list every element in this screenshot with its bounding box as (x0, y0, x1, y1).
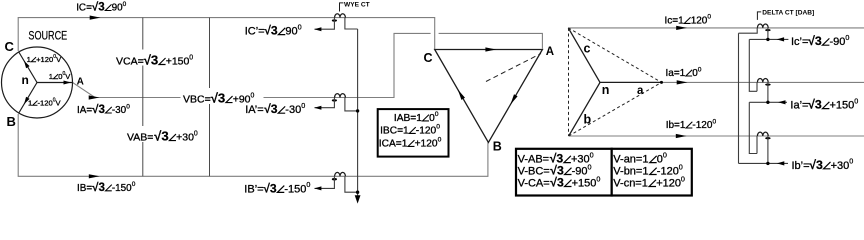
svg-text:-30: -30 (285, 104, 301, 116)
svg-text:-120: -120 (416, 125, 437, 136)
svg-text:c: c (584, 41, 591, 55)
svg-text:IC’=: IC’= (245, 26, 265, 38)
svg-text:120: 120 (691, 15, 708, 26)
WYE CT callout bracket (340, 3, 344, 12)
svg-text:√3: √3 (92, 103, 105, 116)
svg-text:-120: -120 (692, 120, 712, 131)
wire: CT secondary return lead to neutral bus (345, 176, 358, 192)
svg-text:√3: √3 (154, 129, 169, 144)
wire: junction1 link to CT2 (749, 39, 757, 91)
CT polarity mark (765, 137, 770, 139)
svg-text:V-bn=1: V-bn=1 (613, 166, 648, 178)
dashed delta reference c-b (568, 28, 570, 136)
CT polarity mark (332, 19, 337, 21)
arrow Ib (676, 134, 687, 138)
svg-text:0: 0 (679, 162, 683, 171)
svg-text:√3: √3 (264, 102, 278, 116)
wire: CT secondary lead (polarity) to output arrow (315, 18, 335, 30)
svg-text:0: 0 (849, 157, 853, 166)
CT winding bumps (757, 24, 768, 28)
wire: secondary phase c line (568, 27, 864, 29)
wire: output Ia&apos; (749, 101, 787, 103)
svg-text:90: 90 (285, 26, 297, 38)
svg-text:√3: √3 (92, 1, 105, 14)
wire: CT2 left lead (756, 82, 758, 91)
svg-text:√3: √3 (809, 158, 823, 172)
wire: delta CT1 right lead to junction (767, 28, 769, 40)
svg-text:-150: -150 (284, 183, 306, 195)
dashed phase reference line inside delta (486, 54, 541, 82)
arrow IA on phase A (89, 95, 100, 99)
wire: voltage tap vertical 1 (142, 18, 144, 177)
svg-text:0: 0 (132, 181, 136, 188)
svg-text:1: 1 (28, 98, 32, 107)
CT polarity mark (765, 29, 770, 31)
svg-text:Ib=1: Ib=1 (666, 120, 686, 131)
box: delta winding currents (378, 109, 449, 157)
svg-text:0: 0 (845, 33, 849, 42)
svg-text:√3: √3 (808, 98, 822, 112)
svg-text:Ia’=: Ia’= (790, 100, 808, 112)
wire: CT secondary return lead to neutral bus (345, 98, 358, 111)
svg-text:+150: +150 (830, 100, 855, 112)
wire: wye CT neutral bus (357, 29, 359, 196)
svg-text:WYE CT: WYE CT (344, 1, 370, 8)
node a junction (660, 81, 663, 84)
svg-text:VBC=: VBC= (183, 94, 211, 106)
wire: junction2 link to CT3 (749, 102, 757, 153)
svg-text:A: A (77, 76, 84, 87)
CT winding bumps (757, 78, 768, 82)
svg-text:+120: +120 (656, 178, 681, 190)
svg-text:+120: +120 (36, 55, 53, 64)
svg-text:-90: -90 (830, 36, 846, 48)
transformer wye winding branch n-a (600, 81, 662, 83)
svg-text:IB=: IB= (77, 183, 92, 194)
svg-text:0: 0 (123, 1, 127, 8)
wire: secondary phase b line (569, 135, 864, 137)
arrow on left edge toward C (458, 90, 465, 100)
wire: source branch to C (19, 52, 38, 83)
CT winding bumps (335, 94, 346, 98)
wire: source branch to A (37, 82, 73, 84)
arrow IC on phase C (90, 16, 101, 20)
box: phase voltages (612, 149, 692, 196)
svg-text:-90: -90 (572, 166, 588, 178)
svg-text:VAB=: VAB= (127, 132, 153, 144)
svg-text:a: a (637, 85, 644, 97)
svg-text:IB’=: IB’= (244, 183, 263, 195)
svg-text:1: 1 (27, 55, 31, 64)
svg-text:0: 0 (435, 111, 439, 118)
svg-text:Ic=1: Ic=1 (665, 15, 685, 26)
wire: delta closing vertical (738, 33, 740, 163)
svg-text:C: C (424, 51, 433, 65)
svg-text:√3: √3 (211, 91, 226, 106)
svg-text:B: B (7, 114, 16, 129)
svg-text:A: A (546, 46, 554, 58)
box: line voltages (516, 149, 612, 196)
transformer wye winding branch n-c (568, 28, 600, 83)
CT polarity mark (765, 83, 770, 85)
svg-text:0: 0 (681, 174, 685, 183)
svg-text:DELTA CT [DAB]: DELTA CT [DAB] (762, 10, 814, 17)
svg-text:0: 0 (436, 124, 440, 131)
wire: delta CT1 left lead (739, 28, 758, 33)
transformer wye winding branch n-b (569, 82, 600, 136)
wire: delta CT3 right lead to junction (767, 136, 769, 163)
CT winding bumps (335, 14, 346, 18)
wire: source branch to B (19, 83, 38, 114)
svg-text:0: 0 (438, 137, 442, 144)
svg-text:√3: √3 (144, 53, 159, 68)
wire: voltage tap vertical 2 (209, 18, 211, 177)
svg-text:√3: √3 (808, 34, 822, 48)
svg-text:0: 0 (194, 131, 198, 138)
wire: output Ib&apos; (739, 162, 789, 164)
svg-text:IAB=1: IAB=1 (394, 113, 422, 124)
svg-text:√3: √3 (92, 181, 105, 194)
CT polarity mark (332, 99, 337, 101)
svg-text:+30: +30 (176, 132, 194, 144)
svg-text:B: B (493, 140, 502, 154)
svg-text:√3: √3 (264, 24, 278, 38)
dashed delta reference b-a (569, 82, 662, 136)
svg-text:0: 0 (189, 55, 193, 62)
node junction 2 (766, 101, 769, 104)
svg-text:Ib’=: Ib’= (792, 160, 810, 172)
svg-text:0: 0 (596, 174, 600, 183)
CT winding bumps (757, 132, 768, 136)
svg-text:0: 0 (301, 101, 305, 110)
svg-text:0: 0 (713, 118, 717, 125)
CT polarity mark (332, 178, 337, 180)
svg-text:+150: +150 (166, 56, 190, 68)
svg-text:√3: √3 (550, 176, 564, 190)
node: junction A-CT to bus (356, 109, 359, 112)
wire: phase A from source through CT, riser to delta vertex A (73, 33, 431, 97)
svg-text:0: 0 (854, 96, 858, 105)
svg-text:0: 0 (306, 180, 310, 189)
svg-text:√3: √3 (263, 181, 277, 195)
svg-text:-120: -120 (657, 166, 679, 178)
svg-text:0: 0 (588, 162, 592, 171)
svg-text:IC=: IC= (76, 3, 92, 14)
svg-text:IA’=: IA’= (245, 104, 263, 116)
svg-text:0: 0 (663, 150, 667, 159)
wire: phase C from source to CT and delta vertex C (18, 18, 435, 51)
arrow on right edge toward B (510, 94, 517, 104)
svg-text:SOURCE: SOURCE (28, 29, 67, 43)
svg-text:V-AB=: V-AB= (518, 154, 550, 166)
wire: output Ic&apos; (749, 38, 788, 40)
svg-text:+30: +30 (831, 160, 850, 172)
svg-text:0: 0 (251, 93, 255, 100)
transformer delta winding (triangle C-A-B) (435, 50, 543, 143)
svg-text:V-BC=: V-BC= (518, 166, 550, 178)
svg-text:Ia=1: Ia=1 (666, 68, 686, 79)
svg-text:-30: -30 (112, 105, 127, 116)
svg-text:-120: -120 (38, 98, 53, 107)
wire: CT secondary return lead to neutral bus (345, 18, 358, 29)
wire: delta CT2 right lead to junction (767, 82, 769, 102)
arrow on top edge C to A (485, 47, 496, 51)
node: junction B-CT to bus (356, 191, 359, 194)
svg-text:Ic’=: Ic’= (791, 36, 808, 48)
svg-text:V-cn=1: V-cn=1 (613, 178, 648, 190)
svg-text:0: 0 (298, 22, 302, 31)
CT winding bumps (335, 172, 346, 176)
wire: CT secondary lead (polarity) to output arrow (315, 176, 335, 188)
arrow Ia (677, 80, 688, 84)
label VBC (181, 88, 264, 104)
wire: CT secondary lead (polarity) to output arrow (315, 98, 335, 108)
svg-text:-150: -150 (112, 183, 132, 194)
svg-text:+150: +150 (572, 178, 597, 190)
label VAB (124, 126, 200, 142)
dashed delta reference c-a (568, 28, 661, 83)
svg-text:IBC=1: IBC=1 (380, 125, 409, 136)
node junction 1 (766, 38, 769, 41)
svg-text:+120: +120 (415, 138, 438, 149)
svg-text:ICA=1: ICA=1 (379, 138, 408, 149)
label VCA (114, 50, 198, 66)
svg-text:n: n (602, 83, 610, 97)
wire: CT3 left lead (756, 136, 758, 154)
svg-text:1: 1 (49, 72, 53, 81)
svg-text:b: b (584, 113, 592, 127)
node junction 3 (766, 162, 769, 165)
ground arrow at bus bottom (355, 195, 361, 203)
wire: phase B from source to delta vertex B (18, 114, 488, 176)
svg-text:0: 0 (126, 103, 130, 110)
arrow IB on phase B (89, 174, 100, 178)
DELTA CT callout bracket (757, 12, 761, 20)
svg-text:C: C (5, 39, 15, 54)
svg-text:V-an=1: V-an=1 (613, 154, 648, 166)
svg-text:90: 90 (112, 3, 123, 14)
source generator circle (2, 47, 73, 118)
wire: secondary phase a line (662, 81, 864, 83)
svg-text:VCA=: VCA= (116, 56, 144, 68)
svg-text:IA=: IA= (77, 105, 92, 116)
svg-text:V-CA=: V-CA= (518, 178, 550, 190)
svg-text:n: n (22, 73, 29, 87)
arrow Ic (676, 26, 687, 30)
svg-text:0: 0 (707, 14, 711, 21)
svg-text:0: 0 (590, 150, 594, 159)
svg-text:0: 0 (698, 66, 702, 73)
